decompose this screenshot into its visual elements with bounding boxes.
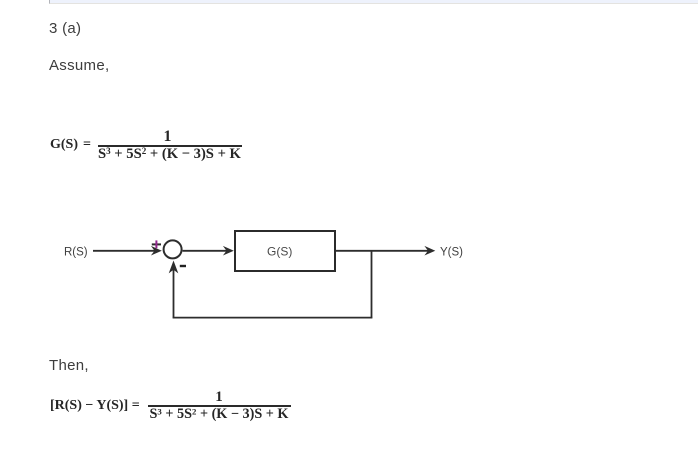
plus sign at summing junction [152, 243, 161, 245]
heading 3 (a) [49, 20, 81, 37]
formula 1: G(S) = 1 / (S^3+5S^2+(K-3)S+K) [50, 137, 91, 153]
svg-text:Y(S): Y(S) [440, 247, 463, 259]
feedback wire up into summing junction [173, 266, 175, 318]
block diagram [0, 220, 520, 330]
formula 2: [R(S) - Y(S)] = 1 / (S^3+5S^2+(K-3)S+K) [50, 398, 140, 414]
wire block G1 to output Y(S) [336, 250, 429, 252]
minus sign at summing junction [180, 265, 186, 267]
svg-text:G(S): G(S) [267, 245, 292, 259]
block G1 G(S) [235, 231, 335, 271]
feedback wire down from output node [371, 251, 373, 318]
wire R(S) to summing junction [93, 250, 156, 252]
Then, [49, 357, 89, 374]
wire summing junction to block G1 [183, 250, 228, 252]
feedback wire bottom run [173, 317, 373, 319]
Assume, [49, 57, 109, 74]
summing junction [164, 240, 182, 258]
svg-text:R(S): R(S) [64, 247, 88, 259]
top box remnant (bottom edge of element above) [49, 0, 698, 4]
